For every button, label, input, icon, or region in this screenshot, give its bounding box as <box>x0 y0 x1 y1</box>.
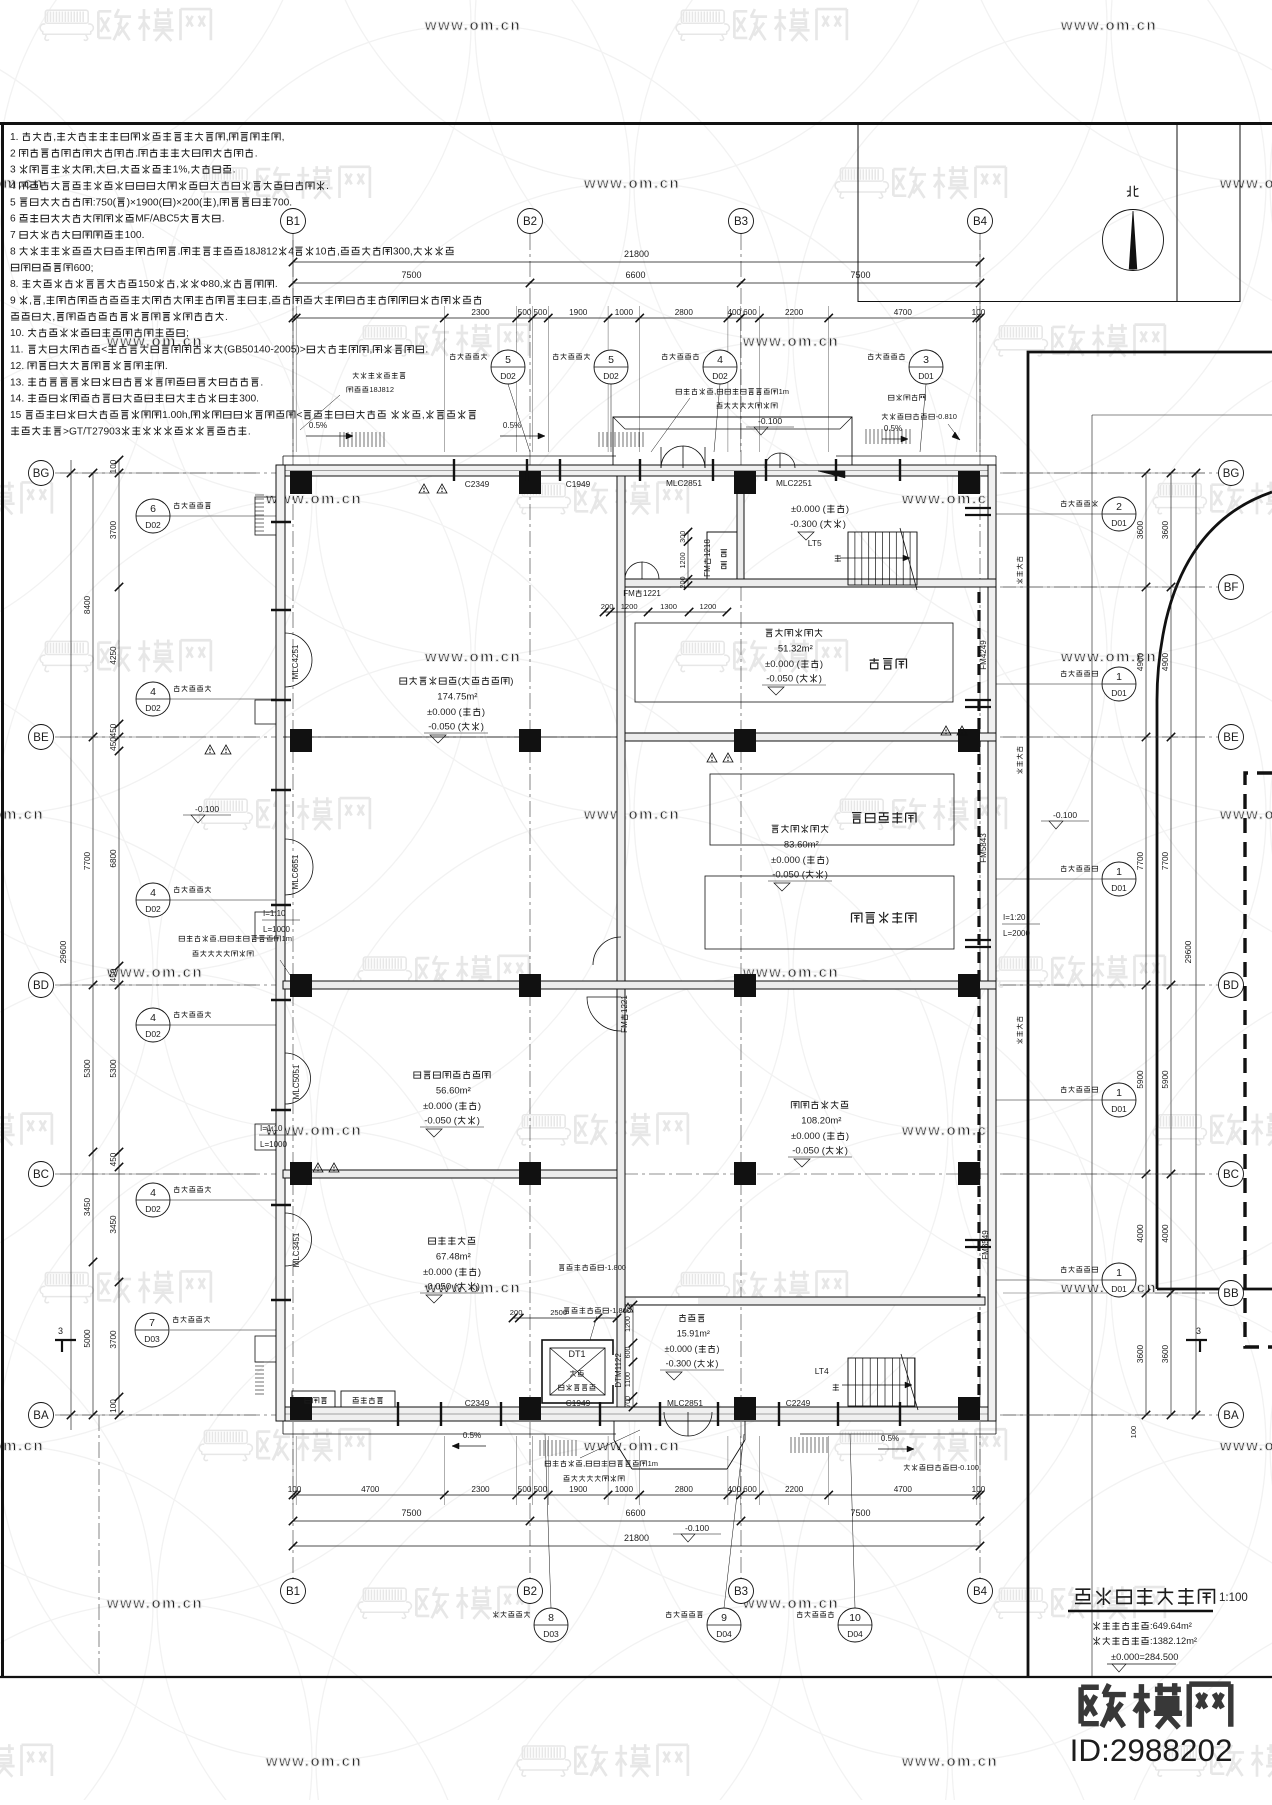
svg-text:B3: B3 <box>734 216 748 228</box>
svg-text:-0.050 (: -0.050 ( <box>424 1116 458 1127</box>
svg-text:4700: 4700 <box>894 1485 913 1494</box>
svg-text:BD: BD <box>33 980 49 992</box>
svg-text:4: 4 <box>10 181 16 192</box>
svg-text:4000: 4000 <box>1136 1224 1145 1243</box>
svg-text:(GB50140-2005)>: (GB50140-2005)> <box>224 345 306 356</box>
svg-text:www.om.cn: www.om.cn <box>424 17 521 34</box>
svg-text:www.om.cn: www.om.cn <box>583 175 680 192</box>
svg-text:,: , <box>43 296 46 307</box>
svg-text:9: 9 <box>721 1612 727 1624</box>
svg-text:,: , <box>422 410 425 421</box>
svg-text:2500: 2500 <box>550 1308 567 1317</box>
svg-text:7500: 7500 <box>851 270 871 280</box>
svg-text:5000: 5000 <box>83 1329 92 1348</box>
svg-text:1m: 1m <box>779 387 789 396</box>
svg-text:-0.050 (: -0.050 ( <box>424 1282 458 1293</box>
svg-text:1: 1 <box>1116 671 1122 683</box>
svg-text:7500: 7500 <box>402 270 422 280</box>
svg-text:700.: 700. <box>272 197 292 208</box>
svg-text:-0.100: -0.100 <box>195 804 219 814</box>
svg-text:4: 4 <box>150 1187 156 1199</box>
svg-text:1: 1 <box>1116 1267 1122 1279</box>
svg-text:): ) <box>478 1101 481 1112</box>
svg-text:): ) <box>481 722 484 733</box>
svg-text:±0.000 (: ±0.000 ( <box>791 504 827 515</box>
svg-text:,: , <box>282 132 285 143</box>
svg-text:2800: 2800 <box>675 1485 694 1494</box>
svg-text:100: 100 <box>972 308 986 317</box>
svg-text:67.48m²: 67.48m² <box>436 1252 471 1263</box>
svg-text:BB: BB <box>1223 1288 1239 1300</box>
svg-text:450: 450 <box>109 968 118 982</box>
svg-text:MLC2851: MLC2851 <box>667 1398 703 1408</box>
svg-text:4: 4 <box>288 246 294 257</box>
svg-text:±0.000 (: ±0.000 ( <box>427 707 463 718</box>
svg-text:www.om.cn: www.om.cn <box>106 1595 203 1612</box>
svg-text:2300: 2300 <box>471 308 490 317</box>
svg-text:-0.300 (: -0.300 ( <box>790 519 824 530</box>
svg-text:3450: 3450 <box>83 1197 92 1216</box>
svg-text:C2349: C2349 <box>465 1398 490 1408</box>
svg-text:1.00h,: 1.00h, <box>162 410 190 421</box>
svg-text:100: 100 <box>109 1399 118 1413</box>
svg-text:BA: BA <box>1223 1410 1239 1422</box>
svg-text:C2249: C2249 <box>786 1398 811 1408</box>
svg-text:5: 5 <box>10 197 16 208</box>
svg-text:10: 10 <box>315 246 327 257</box>
svg-text:): ) <box>477 1116 480 1127</box>
svg-text::750(: :750( <box>93 197 117 208</box>
svg-text:): ) <box>819 674 822 685</box>
svg-text:.: . <box>222 214 225 225</box>
svg-text:2300: 2300 <box>471 1485 490 1494</box>
svg-text:D01: D01 <box>1111 1284 1127 1294</box>
svg-text:MLC4251: MLC4251 <box>291 644 300 679</box>
svg-text:1200: 1200 <box>621 602 638 611</box>
svg-text:200: 200 <box>601 602 614 611</box>
svg-text:1m: 1m <box>282 934 292 943</box>
svg-text:.: . <box>233 165 236 176</box>
svg-text:4900: 4900 <box>1161 652 1170 671</box>
svg-text:51.32m²: 51.32m² <box>778 644 813 655</box>
svg-text:1: 1 <box>1116 1087 1122 1099</box>
svg-text:BF: BF <box>1224 582 1239 594</box>
svg-text:3600: 3600 <box>1136 520 1145 539</box>
svg-text:2800: 2800 <box>675 308 694 317</box>
svg-text:www.om.cn: www.om.cn <box>901 1753 998 1770</box>
svg-text:): ) <box>846 504 849 515</box>
svg-text:1221: 1221 <box>643 589 661 598</box>
svg-text:www.om.cn: www.om.cn <box>0 1438 44 1455</box>
svg-text:7700: 7700 <box>1136 851 1145 870</box>
svg-text:1%,: 1%, <box>173 165 191 176</box>
svg-text:18J812: 18J812 <box>369 385 394 394</box>
svg-text:D02: D02 <box>145 520 161 530</box>
svg-text:D02: D02 <box>145 703 161 713</box>
svg-text:2: 2 <box>1116 501 1122 513</box>
svg-text:6600: 6600 <box>626 1508 646 1518</box>
svg-text:.: . <box>165 361 168 372</box>
svg-text:www.om.cn: www.om.cn <box>901 491 998 508</box>
svg-text:100: 100 <box>972 1485 986 1494</box>
svg-text:)×200(: )×200( <box>173 197 203 208</box>
svg-text:6: 6 <box>10 214 16 225</box>
svg-text:www.om.cn: www.om.cn <box>1060 17 1157 34</box>
svg-text:): ) <box>825 870 828 881</box>
svg-text:14.: 14. <box>10 394 24 405</box>
svg-text:450: 450 <box>109 723 118 737</box>
svg-text:8400: 8400 <box>83 595 92 614</box>
svg-text:www.om.cn: www.om.cn <box>742 964 839 981</box>
svg-text:56.60m²: 56.60m² <box>436 1086 471 1097</box>
svg-text:MLC3451: MLC3451 <box>292 1232 301 1267</box>
svg-text:7: 7 <box>10 230 16 241</box>
svg-text:-0.050 (: -0.050 ( <box>766 674 800 685</box>
svg-text:100.: 100. <box>125 230 145 241</box>
svg-text:B2: B2 <box>523 216 537 228</box>
svg-text:,: , <box>217 934 219 943</box>
svg-text:1100: 1100 <box>625 1372 632 1387</box>
svg-text:,: , <box>176 279 179 290</box>
svg-text:BD: BD <box>1223 980 1239 992</box>
svg-text:B3: B3 <box>734 1586 748 1598</box>
svg-text:4250: 4250 <box>109 646 118 665</box>
svg-text:D02: D02 <box>712 371 728 381</box>
svg-text:I=1:20: I=1:20 <box>1003 913 1026 922</box>
svg-text:±0.000 (: ±0.000 ( <box>791 1131 827 1142</box>
svg-text:3700: 3700 <box>109 1330 118 1349</box>
svg-text:500: 500 <box>518 1485 532 1494</box>
svg-text:-1.800: -1.800 <box>610 1306 631 1315</box>
svg-text:100: 100 <box>109 459 118 473</box>
svg-text:21800: 21800 <box>624 1533 649 1543</box>
svg-text:1:100: 1:100 <box>1219 1592 1248 1604</box>
svg-text:www.om.cn: www.om.cn <box>583 1438 680 1455</box>
svg-text:www.om.cn: www.om.cn <box>1219 1438 1272 1455</box>
svg-text:4: 4 <box>150 887 156 899</box>
svg-text:): ) <box>478 1267 481 1278</box>
svg-text:±0.000 (: ±0.000 ( <box>423 1101 459 1112</box>
svg-text:www.om.cn: www.om.cn <box>106 964 203 981</box>
svg-text:6: 6 <box>150 503 156 515</box>
svg-text:): ) <box>826 855 829 866</box>
svg-text:7500: 7500 <box>402 1508 422 1518</box>
svg-text:8: 8 <box>10 246 16 257</box>
svg-text:.: . <box>425 345 428 356</box>
svg-text:4: 4 <box>150 686 156 698</box>
svg-text:-0.100: -0.100 <box>1053 810 1077 820</box>
svg-text:500: 500 <box>534 1485 548 1494</box>
svg-text:.: . <box>275 279 278 290</box>
svg-text:B4: B4 <box>973 216 988 228</box>
svg-text:1: 1 <box>1116 866 1122 878</box>
svg-text:1900: 1900 <box>569 308 588 317</box>
svg-text:,: , <box>117 165 120 176</box>
svg-text:15.91m²: 15.91m² <box>677 1329 710 1339</box>
svg-text:450: 450 <box>109 1152 118 1166</box>
svg-text:1000: 1000 <box>615 308 634 317</box>
svg-text:4: 4 <box>150 1012 156 1024</box>
svg-text:600;: 600; <box>74 263 94 274</box>
svg-text:FM: FM <box>703 565 712 577</box>
svg-text:): ) <box>477 1282 480 1293</box>
svg-text:,: , <box>583 1459 585 1468</box>
svg-text:174.75m²: 174.75m² <box>437 692 477 703</box>
svg-text:www.om.cn: www.om.cn <box>583 806 680 823</box>
svg-text:2200: 2200 <box>785 1485 804 1494</box>
svg-text:MLC5051: MLC5051 <box>292 1064 301 1099</box>
svg-text:±0.000 (: ±0.000 ( <box>765 659 801 670</box>
svg-text:300: 300 <box>678 531 687 543</box>
svg-text:-1.800: -1.800 <box>605 1263 626 1272</box>
svg-text:200: 200 <box>510 1308 523 1317</box>
svg-text:D01: D01 <box>1111 688 1127 698</box>
svg-text:): ) <box>843 519 846 530</box>
svg-text:5300: 5300 <box>109 1059 118 1078</box>
svg-text:D01: D01 <box>1111 518 1127 528</box>
svg-text::1382.12m²: :1382.12m² <box>1150 1636 1197 1646</box>
svg-text:0.5%: 0.5% <box>309 421 327 430</box>
svg-text:7700: 7700 <box>83 851 92 870</box>
svg-text:BC: BC <box>33 1169 49 1181</box>
svg-text:1.: 1. <box>10 132 19 143</box>
svg-text:B2: B2 <box>523 1586 537 1598</box>
svg-text:450: 450 <box>109 737 118 751</box>
svg-text:.: . <box>135 148 138 159</box>
svg-text:4900: 4900 <box>1136 652 1145 671</box>
svg-text:FM: FM <box>620 1021 629 1033</box>
svg-text:10.: 10. <box>10 328 24 339</box>
svg-text:BG: BG <box>33 468 50 480</box>
svg-text:<: < <box>297 410 303 421</box>
svg-text:1218: 1218 <box>703 539 712 557</box>
svg-text:-0.100: -0.100 <box>958 1463 979 1472</box>
svg-text:DT1: DT1 <box>569 1349 586 1359</box>
svg-text:MLC6651: MLC6651 <box>291 854 300 889</box>
svg-text:-0.050 (: -0.050 ( <box>428 722 462 733</box>
svg-text:.: . <box>178 246 181 257</box>
svg-text:4700: 4700 <box>894 308 913 317</box>
svg-text:5900: 5900 <box>1136 1070 1145 1089</box>
svg-text:L=1000: L=1000 <box>263 925 290 934</box>
svg-text:D02: D02 <box>603 371 619 381</box>
svg-text:): ) <box>482 707 485 718</box>
svg-text:I=1:10: I=1:10 <box>263 909 286 918</box>
svg-text:MF/ABC5: MF/ABC5 <box>135 214 179 225</box>
svg-text:±0.000 (: ±0.000 ( <box>771 855 807 866</box>
svg-text:500: 500 <box>534 308 548 317</box>
svg-text:): ) <box>717 1344 720 1354</box>
svg-text:1m: 1m <box>648 1459 658 1468</box>
svg-text:D02: D02 <box>145 904 161 914</box>
svg-text:FM5843: FM5843 <box>979 833 988 863</box>
svg-text:www.om.cn: www.om.cn <box>265 1753 362 1770</box>
svg-text:BG: BG <box>1223 468 1240 480</box>
svg-text:LT5: LT5 <box>808 538 822 548</box>
svg-text:3600: 3600 <box>1136 1344 1145 1363</box>
svg-text:D04: D04 <box>847 1629 863 1639</box>
svg-text:21800: 21800 <box>624 249 649 259</box>
svg-text:ID:2988202: ID:2988202 <box>1070 1732 1233 1768</box>
svg-text:1221: 1221 <box>620 995 629 1013</box>
svg-text:100: 100 <box>1129 1426 1138 1439</box>
svg-text:D01: D01 <box>1111 883 1127 893</box>
svg-text:400: 400 <box>727 308 741 317</box>
svg-text:D01: D01 <box>918 371 934 381</box>
svg-text:29600: 29600 <box>1184 940 1193 963</box>
svg-text:,: , <box>337 246 340 257</box>
svg-text:1200: 1200 <box>678 552 687 568</box>
svg-text:5: 5 <box>505 354 511 366</box>
svg-text:8.: 8. <box>10 279 19 290</box>
svg-text:Φ80,: Φ80, <box>200 279 222 290</box>
svg-text:www.om.cn: www.om.cn <box>1219 175 1272 192</box>
svg-text:,: , <box>53 132 56 143</box>
svg-text:600: 600 <box>743 308 757 317</box>
svg-text:3: 3 <box>10 165 16 176</box>
svg-text:L=1000: L=1000 <box>260 1140 287 1149</box>
svg-text:.: . <box>326 181 329 192</box>
svg-text:www.om.cn: www.om.cn <box>742 333 839 350</box>
svg-text:D02: D02 <box>145 1029 161 1039</box>
svg-text:-0.100: -0.100 <box>758 416 782 426</box>
svg-text:,: , <box>714 387 716 396</box>
svg-text:-0.050 (: -0.050 ( <box>772 870 806 881</box>
svg-text:500: 500 <box>518 308 532 317</box>
svg-text:5: 5 <box>608 354 614 366</box>
svg-text:),: ), <box>213 197 219 208</box>
svg-text:,: , <box>226 132 229 143</box>
svg-text:12.: 12. <box>10 361 24 372</box>
svg-text:FM3549: FM3549 <box>981 1230 990 1260</box>
svg-text:D02: D02 <box>145 1204 161 1214</box>
svg-text:FM4249: FM4249 <box>979 640 988 670</box>
svg-text:3450: 3450 <box>109 1215 118 1234</box>
svg-text:108.20m²: 108.20m² <box>801 1116 841 1127</box>
svg-text:www.om.cn: www.om.cn <box>424 649 521 666</box>
svg-text:15: 15 <box>10 410 22 421</box>
svg-text:,: , <box>268 296 271 307</box>
svg-text:1200: 1200 <box>700 602 717 611</box>
svg-text:7700: 7700 <box>1161 851 1170 870</box>
svg-text:)×1900(: )×1900( <box>127 197 163 208</box>
svg-text:0.5%: 0.5% <box>881 1434 899 1443</box>
svg-text:C2349: C2349 <box>465 479 490 489</box>
svg-text:MLC2851: MLC2851 <box>666 478 702 488</box>
svg-text:±0.000=284.500: ±0.000=284.500 <box>1111 1652 1178 1662</box>
svg-text:4: 4 <box>717 354 723 366</box>
svg-text:5900: 5900 <box>1161 1070 1170 1089</box>
svg-text:,: , <box>29 296 32 307</box>
svg-text:4000: 4000 <box>1161 1224 1170 1243</box>
svg-text:-0.300 (: -0.300 ( <box>666 1359 697 1369</box>
svg-text:200: 200 <box>678 576 687 588</box>
svg-text:DTM1122: DTM1122 <box>614 1353 623 1388</box>
svg-text:1200: 1200 <box>625 1316 632 1332</box>
svg-text:600: 600 <box>625 1347 632 1359</box>
svg-text:C1949: C1949 <box>566 1398 591 1408</box>
svg-text:B1: B1 <box>286 216 300 228</box>
svg-text:100: 100 <box>288 1485 302 1494</box>
svg-text:3: 3 <box>58 1326 63 1336</box>
svg-text:FM: FM <box>623 589 635 598</box>
svg-text:300.: 300. <box>239 394 259 405</box>
svg-text:1300: 1300 <box>660 602 677 611</box>
svg-text:3: 3 <box>1196 1326 1201 1336</box>
svg-text:L=2000: L=2000 <box>1003 929 1030 938</box>
svg-text:www.om.cn: www.om.cn <box>0 806 44 823</box>
svg-text:BA: BA <box>33 1410 49 1422</box>
svg-text:): ) <box>845 1146 848 1157</box>
svg-text:3600: 3600 <box>1161 1344 1170 1363</box>
svg-text:9: 9 <box>10 296 16 307</box>
svg-text:.: . <box>248 426 251 437</box>
svg-text:3700: 3700 <box>109 520 118 539</box>
svg-text:8: 8 <box>548 1612 554 1624</box>
svg-text:-0.050 (: -0.050 ( <box>792 1146 826 1157</box>
svg-text:11.: 11. <box>10 345 23 356</box>
svg-text:D03: D03 <box>543 1629 559 1639</box>
svg-text:0.5%: 0.5% <box>884 424 902 433</box>
svg-text:D01: D01 <box>1111 1104 1127 1114</box>
svg-text:600: 600 <box>743 1485 757 1494</box>
svg-text:,: , <box>52 312 55 323</box>
svg-text:BC: BC <box>1223 1169 1239 1181</box>
svg-text:): ) <box>846 1131 849 1142</box>
svg-text:I=1:10: I=1:10 <box>260 1124 283 1133</box>
svg-text:400: 400 <box>727 1485 741 1494</box>
svg-text:.: . <box>260 377 263 388</box>
svg-text:5300: 5300 <box>83 1059 92 1078</box>
svg-text:150: 150 <box>138 279 155 290</box>
svg-text:www.om.cn: www.om.cn <box>901 1122 998 1139</box>
svg-text:LT4: LT4 <box>815 1366 829 1376</box>
svg-text:-0.810: -0.810 <box>936 412 957 421</box>
svg-text:29600: 29600 <box>59 940 68 963</box>
svg-text:±0.000 (: ±0.000 ( <box>423 1267 459 1278</box>
svg-text:1900: 1900 <box>569 1485 588 1494</box>
svg-text:D04: D04 <box>716 1629 732 1639</box>
svg-text:.: . <box>255 148 258 159</box>
svg-text:B1: B1 <box>286 1586 300 1598</box>
svg-text:4700: 4700 <box>361 1485 380 1494</box>
svg-text:.: . <box>225 312 228 323</box>
svg-text:BE: BE <box>1223 732 1239 744</box>
svg-text:;: ; <box>186 328 189 339</box>
svg-text:1000: 1000 <box>615 1485 634 1494</box>
svg-text:13.: 13. <box>10 377 24 388</box>
svg-text::649.64m²: :649.64m² <box>1150 1621 1192 1631</box>
svg-text:B4: B4 <box>973 1586 988 1598</box>
svg-text:7500: 7500 <box>851 1508 871 1518</box>
svg-text:>GT/T27903: >GT/T27903 <box>63 426 121 437</box>
svg-text:BE: BE <box>33 732 49 744</box>
svg-text:-0.100: -0.100 <box>685 1523 709 1533</box>
svg-text:): ) <box>820 659 823 670</box>
svg-text:300,: 300, <box>393 246 413 257</box>
svg-text:D03: D03 <box>144 1334 160 1344</box>
svg-text:10: 10 <box>849 1612 861 1624</box>
svg-text:,: , <box>370 345 373 356</box>
svg-text:6800: 6800 <box>109 849 118 868</box>
svg-text:±0.000 (: ±0.000 ( <box>665 1344 698 1354</box>
svg-text:700: 700 <box>625 1396 632 1408</box>
svg-text:<: < <box>101 345 107 356</box>
svg-text:C1949: C1949 <box>566 479 591 489</box>
svg-text:2: 2 <box>10 148 16 159</box>
svg-text:18J812: 18J812 <box>244 246 278 257</box>
svg-text:D02: D02 <box>500 371 516 381</box>
